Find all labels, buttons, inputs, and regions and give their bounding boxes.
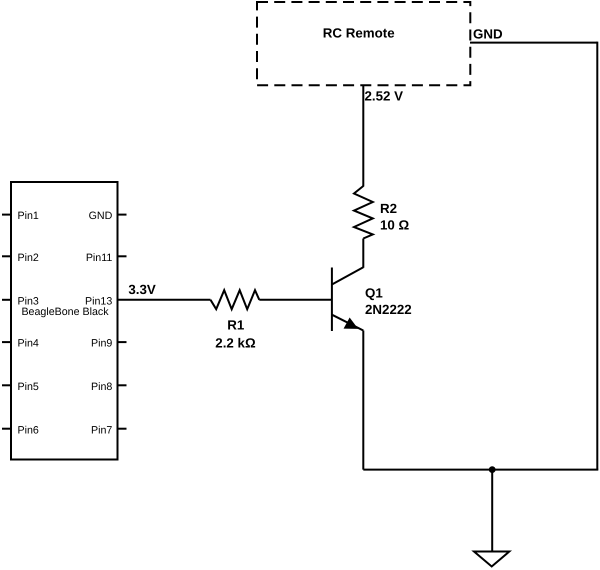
junction dot xyxy=(489,466,496,473)
wire ground stem xyxy=(491,470,493,552)
emitter arrow xyxy=(344,318,357,328)
svg-text:R2: R2 xyxy=(380,201,397,216)
svg-text:Pin9: Pin9 xyxy=(91,338,112,350)
svg-text:Pin13: Pin13 xyxy=(85,295,112,307)
svg-text:3.3V: 3.3V xyxy=(128,282,156,297)
svg-text:Pin2: Pin2 xyxy=(18,252,39,264)
pin stub Pin4 xyxy=(2,341,11,343)
pin stub Pin6 xyxy=(2,428,11,430)
pin stub Pin7 xyxy=(118,428,127,430)
wire R1 to base xyxy=(259,299,332,301)
pin stub Pin5 xyxy=(2,384,11,386)
svg-text:Q1: Q1 xyxy=(365,285,383,300)
svg-text:GND: GND xyxy=(473,26,503,41)
svg-text:R1: R1 xyxy=(227,318,245,333)
wire GND horizontal top xyxy=(470,42,597,44)
BeagleBone Black box xyxy=(11,182,118,460)
pin stub Pin3 xyxy=(2,299,11,301)
ground xyxy=(474,552,509,567)
resistor R2 xyxy=(354,186,373,239)
wire bottom horizontal xyxy=(363,469,598,471)
svg-text:Pin1: Pin1 xyxy=(18,210,39,222)
emitter diagonal xyxy=(332,315,363,331)
pin stub Pin9 xyxy=(118,341,127,343)
wire emitter down xyxy=(362,331,364,470)
svg-text:Pin11: Pin11 xyxy=(86,252,113,264)
svg-text:BeagleBone Black: BeagleBone Black xyxy=(21,306,109,318)
pin stub Pin2 xyxy=(2,255,11,257)
svg-text:2N2222: 2N2222 xyxy=(365,302,412,317)
svg-text:10 Ω: 10 Ω xyxy=(380,217,410,232)
collector diagonal xyxy=(332,267,363,284)
wire right vertical xyxy=(596,42,598,470)
svg-text:Pin7: Pin7 xyxy=(91,424,112,436)
svg-text:GND: GND xyxy=(89,210,113,222)
svg-text:Pin4: Pin4 xyxy=(18,338,39,350)
wire from RC Remote to R2 xyxy=(362,86,364,187)
transistor Q1 xyxy=(332,267,363,331)
base bar xyxy=(331,268,333,332)
wire R2 to collector xyxy=(362,239,364,268)
pin stub GND xyxy=(118,214,127,216)
RC Remote dashed box xyxy=(257,2,470,85)
svg-text:Pin3: Pin3 xyxy=(18,295,39,307)
resistor R1 xyxy=(211,290,260,309)
svg-text:Pin6: Pin6 xyxy=(18,424,39,436)
svg-text:RC Remote: RC Remote xyxy=(323,25,395,40)
pin stub Pin8 xyxy=(118,384,127,386)
svg-text:Pin8: Pin8 xyxy=(91,381,112,393)
pin stub Pin11 xyxy=(118,255,127,257)
svg-text:Pin5: Pin5 xyxy=(18,381,39,393)
wire Pin13 to R1 xyxy=(118,299,211,301)
pin stub Pin1 xyxy=(2,214,11,216)
svg-text:2.2 kΩ: 2.2 kΩ xyxy=(215,336,256,351)
svg-text:2.52 V: 2.52 V xyxy=(365,88,404,103)
